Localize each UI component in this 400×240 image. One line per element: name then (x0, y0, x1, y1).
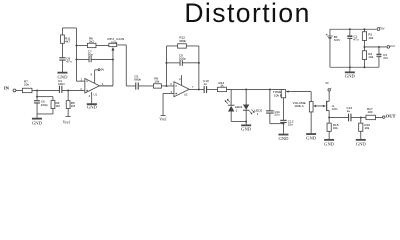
svg-text:9V: 9V (381, 27, 385, 31)
power rail bottom (330, 66, 379, 68)
svg-text:100: 100 (367, 110, 372, 114)
svg-text:7: 7 (192, 85, 194, 89)
svg-text:J201: J201 (332, 107, 339, 111)
svg-text:OUT: OUT (386, 113, 396, 118)
resistor R8 2k2 (87, 37, 96, 48)
capacitor C13 1u (346, 106, 352, 121)
svg-text:10k: 10k (333, 126, 338, 130)
potentiometer VOLUME 100k A (293, 101, 323, 112)
resistor R4 10k (362, 51, 373, 68)
svg-text:100n: 100n (58, 82, 65, 86)
svg-text:GND: GND (57, 75, 68, 80)
wire IN to R7 (16, 89, 23, 91)
battery B1 9.6V (326, 29, 341, 67)
title (184, 0, 310, 28)
wire rail to ground (349, 67, 351, 72)
port OUT (383, 113, 396, 118)
wire R7 to C4 with node (32, 89, 60, 91)
svg-text:Vref: Vref (159, 117, 167, 122)
svg-text:GND: GND (356, 142, 367, 147)
wire C12 to ground (282, 122, 284, 133)
svg-text:GND: GND (278, 136, 289, 141)
svg-text:10k: 10k (154, 80, 159, 84)
resistor R13 1k (217, 81, 226, 92)
wire C8 to ground (61, 60, 63, 72)
capacitor C4 100n (58, 79, 65, 93)
wire C10 to R13 (207, 88, 218, 90)
op-amp U2 power stub pin 4 (179, 75, 181, 85)
diode LED2 (243, 89, 263, 121)
feedback left vertical (165, 46, 167, 86)
ground GND (R16) (356, 140, 367, 147)
svg-text:1M: 1M (55, 104, 60, 108)
wire C5 to R6 (138, 85, 153, 87)
capacitor C11 22n (266, 89, 280, 116)
wire R6 to U2 pin6 with node (161, 85, 174, 87)
wire node down to R16 (360, 117, 362, 123)
wire pin2 node to R8 (76, 44, 87, 46)
wire vref rail (363, 40, 387, 50)
svg-text:GND: GND (345, 73, 356, 78)
svg-text:680k: 680k (179, 39, 186, 43)
wire R9 top (52, 97, 54, 101)
transistor J1 J201 (323, 91, 338, 117)
capacitor C10 1u (203, 79, 209, 93)
ground GND (U1) (87, 104, 98, 110)
svg-text:22n: 22n (274, 113, 279, 117)
capacitor C5 680n (134, 74, 141, 89)
svg-text:1: 1 (236, 108, 238, 112)
wire rail to R11 (61, 28, 63, 35)
wire clipper bottom rail (231, 120, 247, 122)
svg-text:10k: 10k (24, 82, 29, 86)
wire C13 to R17 with node (351, 116, 366, 118)
svg-text:vref: vref (390, 44, 395, 48)
ground GND (VOLUME) (306, 134, 317, 140)
svg-text:100k: 100k (110, 40, 117, 44)
svg-text:100p: 100p (41, 103, 48, 107)
op-amp U1 power pin 8 to 9V (90, 68, 104, 84)
wire R15 to ground (328, 131, 330, 139)
node Vref (stage 2) (159, 115, 167, 121)
svg-text:4k7: 4k7 (65, 40, 70, 44)
svg-text:4: 4 (179, 77, 181, 81)
ground GND (input) (32, 119, 43, 126)
svg-text:GND: GND (32, 121, 43, 126)
wire R17 to OUT (375, 116, 382, 118)
potentiometer RP3_GAIN 100k (107, 37, 124, 60)
node vref (387, 44, 395, 48)
ground GND (supply) (345, 72, 356, 78)
svg-text:1u: 1u (203, 82, 207, 86)
resistor R12 680k (178, 36, 187, 49)
svg-text:1: 1 (102, 82, 104, 86)
svg-text:22n: 22n (288, 122, 293, 126)
resistor R11 4k7 (61, 35, 71, 44)
svg-text:2k2: 2k2 (89, 40, 94, 44)
wire node to R9 (37, 96, 53, 98)
svg-text:GND: GND (306, 135, 317, 140)
svg-text:100p: 100p (179, 56, 186, 60)
capacitor C7 50p (76, 50, 113, 63)
resistor R17 100 (366, 107, 376, 120)
wire C11 bottom to C12 leg (270, 113, 285, 125)
svg-text:GND: GND (324, 142, 335, 147)
node pin2 vertical (75, 28, 84, 81)
svg-text:U2: U2 (184, 93, 188, 97)
ground GND (R15) (324, 140, 335, 147)
resistor R6 10k (153, 76, 161, 88)
svg-text:47u: 47u (353, 38, 358, 42)
node 9V (supply) (377, 27, 385, 31)
svg-text:8: 8 (90, 72, 92, 76)
svg-text:10k: 10k (364, 126, 369, 130)
op-amp U1 ground pin 4 (88, 92, 91, 103)
svg-text:9V: 9V (101, 68, 105, 72)
wire clipper rail to ground (245, 121, 247, 124)
svg-text:Distortion: Distortion (184, 0, 310, 28)
svg-text:1: 1 (257, 112, 259, 116)
wire J1 source node (328, 116, 348, 123)
resistor R9 1M (51, 100, 60, 108)
wire VOLUME bottom to ground (310, 112, 312, 133)
node 9V (J1 drain) (325, 81, 331, 91)
wire U1 output (99, 85, 113, 87)
resistor R15 10k (327, 123, 339, 131)
svg-text:10k: 10k (368, 36, 373, 40)
wire TONE wiper to VOLUME top (310, 92, 312, 102)
svg-text:4: 4 (88, 94, 90, 98)
op-amp U2 (174, 82, 189, 97)
svg-text:1u: 1u (347, 109, 351, 113)
wire C6 to ground (36, 103, 38, 118)
svg-text:9V: 9V (325, 81, 329, 85)
svg-text:47u: 47u (383, 56, 388, 60)
svg-text:U1: U1 (93, 92, 97, 96)
svg-text:10k: 10k (368, 55, 373, 59)
resistor R2 10k (362, 29, 373, 40)
wire U2 output (189, 88, 204, 90)
capacitor C3 47u (376, 47, 388, 67)
wire feedback top left (166, 45, 177, 47)
resistor R7 10k (22, 79, 32, 92)
wire R8 to pot (96, 44, 109, 46)
svg-text:1k: 1k (220, 84, 224, 88)
svg-text:47n: 47n (66, 60, 71, 64)
wire pot wiper down to output (99, 58, 114, 85)
wire node down to R5 (67, 90, 69, 100)
wire pot right to output continuation (117, 45, 136, 86)
svg-text:680n: 680n (134, 78, 141, 82)
wire top rail (62, 27, 76, 29)
wire R13 to clipper rail (226, 88, 283, 90)
capacitor C9 100p (166, 54, 198, 66)
svg-text:Vref: Vref (62, 120, 70, 125)
svg-text:50p: 50p (88, 53, 93, 57)
node Vref (bias, stage 1) (62, 116, 70, 124)
resistor R5 1M (66, 101, 75, 109)
ground GND (C12) (278, 135, 289, 141)
capacitor C1 47u (347, 29, 358, 67)
power rail top (330, 28, 377, 30)
potentiometer TONE 10k B (273, 89, 311, 97)
svg-text:GND: GND (241, 126, 252, 131)
pin 5 wire to Vref (163, 93, 174, 115)
ground GND (R11 leg) (57, 73, 68, 80)
svg-text:LED2: LED2 (254, 108, 262, 112)
wire R9 bottom to ground rail (37, 109, 53, 114)
svg-text:100k A: 100k A (294, 104, 304, 108)
wire TONE bottom to C12 (282, 98, 284, 121)
diode LED1 (225, 89, 243, 121)
svg-text:10k B: 10k B (274, 93, 282, 97)
svg-text:GND: GND (87, 105, 98, 110)
op-amp U1 (85, 79, 100, 97)
ground GND (clipper) (241, 125, 252, 131)
port IN (4, 85, 16, 92)
svg-text:9.6V: 9.6V (334, 38, 341, 42)
capacitor C8 47n (59, 56, 71, 63)
resistor R16 10k (359, 123, 371, 131)
wire C4 to opamp pin3 with node (62, 89, 85, 91)
svg-text:1M: 1M (71, 104, 76, 108)
wire R5 to Vref (67, 109, 69, 117)
capacitor C12 22n (280, 119, 293, 126)
svg-text:IN: IN (4, 85, 10, 90)
capacitor C6 100p (34, 100, 48, 107)
wire R16 to ground (360, 131, 362, 139)
feedback right vertical (198, 46, 200, 90)
svg-text:6: 6 (170, 82, 172, 86)
wire input node down (36, 90, 38, 100)
wire R11 to C8 (61, 43, 63, 57)
wire feedback top right (186, 45, 199, 47)
